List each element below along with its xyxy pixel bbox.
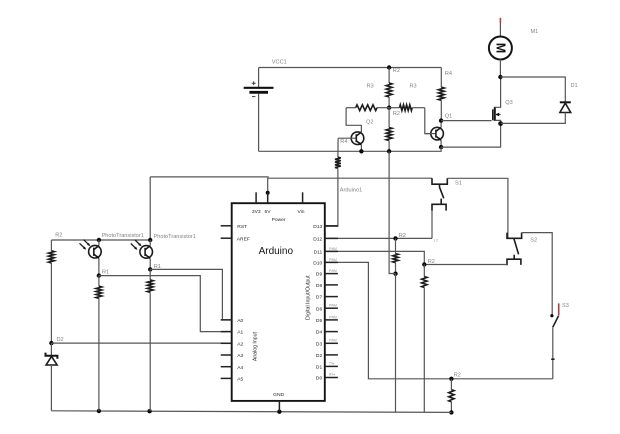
diode D1 <box>501 102 571 123</box>
wire ground rail <box>51 411 451 413</box>
svg-text:D7: D7 <box>316 295 323 301</box>
node 5V pin <box>266 191 270 195</box>
svg-text:D13: D13 <box>313 224 322 230</box>
svg-text:PWM: PWM <box>329 247 337 251</box>
svg-text:GND: GND <box>273 392 284 398</box>
svg-text:RX▾: RX▾ <box>329 373 335 377</box>
svg-text:D3: D3 <box>316 341 323 347</box>
resistor R1-1 <box>96 276 102 411</box>
svg-text:RST: RST <box>237 224 247 230</box>
svg-text:D2: D2 <box>57 337 64 343</box>
svg-text:R2: R2 <box>55 232 62 238</box>
resistor R4 upper <box>438 68 444 121</box>
svg-text:A4: A4 <box>237 365 243 371</box>
node R1-1 top <box>97 273 101 277</box>
svg-text:S3: S3 <box>562 303 569 309</box>
node Q2 emitter <box>359 149 363 153</box>
svg-text:Vin: Vin <box>298 209 305 215</box>
svg-text:Analog Input: Analog Input <box>253 331 259 361</box>
svg-text:Q2: Q2 <box>366 120 373 126</box>
svg-text:D4: D4 <box>316 330 323 336</box>
transistor Q1 <box>425 121 444 148</box>
wire D12 run <box>325 237 432 239</box>
node PT1 collector <box>97 238 101 242</box>
node D2 top <box>49 341 53 345</box>
node Q1 emitter <box>439 145 443 149</box>
wire A0 run <box>150 269 232 320</box>
wire PT collector rail <box>51 239 150 241</box>
battery VCC1 <box>244 68 274 152</box>
svg-text:R2: R2 <box>454 373 461 379</box>
svg-text:5V: 5V <box>265 209 272 215</box>
svg-text:PhotoTransistor1: PhotoTransistor1 <box>154 234 196 240</box>
svg-text:R2: R2 <box>399 233 406 239</box>
svg-text:VCC1: VCC1 <box>272 60 287 66</box>
wire emitter rail <box>259 123 501 151</box>
node PT2 collector <box>148 238 152 242</box>
wire R3col down <box>389 151 395 273</box>
svg-text:S1: S1 <box>455 180 462 186</box>
resistor R4 lower <box>325 157 341 226</box>
svg-text:Arduino1: Arduino1 <box>340 187 362 193</box>
wire 5V to S1 <box>150 177 432 178</box>
node R2 mid bottom <box>393 272 397 276</box>
svg-text:PWM: PWM <box>329 315 337 319</box>
node D11-R2 <box>422 262 426 266</box>
resistor R3 upper <box>386 68 392 108</box>
svg-text:Q3: Q3 <box>505 100 512 106</box>
svg-text:A2: A2 <box>237 341 243 347</box>
svg-text:D9: D9 <box>316 272 323 278</box>
wire S1 to S2 <box>447 178 508 238</box>
svg-text:3V3: 3V3 <box>252 209 261 215</box>
wire 5V riser to PT rail <box>149 177 151 240</box>
wire D11 run <box>325 251 507 264</box>
svg-text:TX▸: TX▸ <box>329 362 335 366</box>
svg-text:Q1: Q1 <box>445 114 452 120</box>
svg-text:R4: R4 <box>340 139 347 145</box>
svg-text:1 2: 1 2 <box>434 239 439 243</box>
svg-text:M1: M1 <box>531 29 539 35</box>
resistor R1-2 <box>147 269 153 411</box>
svg-text:R3: R3 <box>367 84 374 90</box>
svg-text:A0: A0 <box>237 318 243 324</box>
wire Q2 collector branch <box>346 108 361 132</box>
ic Arduino1 box and pins <box>232 203 325 401</box>
motor M1 <box>489 23 512 77</box>
node gnd arduino <box>277 410 281 414</box>
svg-text:Digital Input/Output: Digital Input/Output <box>305 275 311 320</box>
node VCC-R3 <box>387 65 391 69</box>
wire Q1 base branch <box>425 108 431 134</box>
wire A1 run <box>99 276 232 332</box>
node D10-R2 <box>449 377 453 381</box>
svg-text:D10: D10 <box>313 261 322 267</box>
svg-text:R2: R2 <box>393 111 400 117</box>
wire S2 to S3 top <box>522 233 553 316</box>
svg-text:R3: R3 <box>410 84 417 90</box>
resistor R3 lower <box>386 108 392 152</box>
resistor R2 right <box>422 265 427 413</box>
phototransistor PhotoTransistor1 a <box>80 240 102 276</box>
phototransistor PhotoTransistor1 b <box>131 240 153 270</box>
node R1-2 top <box>148 267 152 271</box>
svg-text:S2: S2 <box>530 238 537 244</box>
resistor R2 horizontal-left <box>346 105 389 111</box>
wire R2 mid to gnd <box>395 274 397 412</box>
resistor R2 left <box>49 240 55 343</box>
svg-text:PhotoTransistor1: PhotoTransistor1 <box>102 233 144 239</box>
svg-text:D1: D1 <box>571 83 578 89</box>
wire S1 to D12 <box>431 211 433 239</box>
resistor R2 far <box>449 379 454 413</box>
svg-text:Arduino: Arduino <box>259 246 294 257</box>
svg-text:Power: Power <box>272 217 286 223</box>
svg-text:R1: R1 <box>102 269 109 275</box>
svg-text:D11: D11 <box>314 250 323 256</box>
mosfet Q3 <box>493 77 501 124</box>
wire 5V riser <box>267 178 269 193</box>
wire Q1 to Q3 gate <box>441 120 492 122</box>
svg-text:D12: D12 <box>313 237 322 243</box>
svg-text:D8: D8 <box>316 283 323 289</box>
svg-text:AREF: AREF <box>237 236 250 242</box>
node R3 bottom <box>387 149 391 153</box>
svg-text:A1: A1 <box>237 330 243 336</box>
transistor Q2 <box>338 132 364 151</box>
svg-text:D2: D2 <box>316 353 323 359</box>
svg-text:A3: A3 <box>237 353 243 359</box>
svg-text:R4: R4 <box>445 71 452 77</box>
svg-text:D6: D6 <box>316 306 323 312</box>
node gnd PT1 <box>97 409 101 413</box>
resistor R2 mid <box>393 238 398 273</box>
svg-text:R2: R2 <box>428 259 435 265</box>
wire Q2 base drop <box>337 138 339 157</box>
switch S2 <box>507 233 522 266</box>
svg-text:PWM: PWM <box>329 258 337 262</box>
svg-text:D0: D0 <box>316 376 323 382</box>
diode D2 zener <box>46 343 58 411</box>
svg-text:D5: D5 <box>316 318 323 324</box>
svg-text:D1: D1 <box>316 365 323 371</box>
wire D10 run <box>325 262 553 378</box>
svg-text:R2: R2 <box>393 68 400 74</box>
node motor bottom <box>498 75 502 79</box>
wire motor to D1 <box>500 77 565 102</box>
svg-text:PWM: PWM <box>329 269 337 273</box>
switch S1 <box>432 178 447 210</box>
node D12-R2 <box>393 236 397 240</box>
svg-text:PWM: PWM <box>329 304 337 308</box>
node Q3 source <box>498 121 503 126</box>
node gnd PT2 <box>147 409 151 413</box>
motor M1 red tip <box>499 18 501 23</box>
wire VCC rail <box>259 67 442 69</box>
switch S3 <box>550 303 558 378</box>
wire A2 run <box>51 342 231 344</box>
svg-text:M: M <box>493 43 507 53</box>
resistor R3 horizontal-right <box>389 105 425 111</box>
svg-text:A5: A5 <box>237 377 243 383</box>
node Q1 collector <box>439 118 443 122</box>
svg-text:PWM: PWM <box>329 339 337 343</box>
node R2 mid <box>387 106 391 110</box>
node R2 far gnd <box>449 410 453 414</box>
